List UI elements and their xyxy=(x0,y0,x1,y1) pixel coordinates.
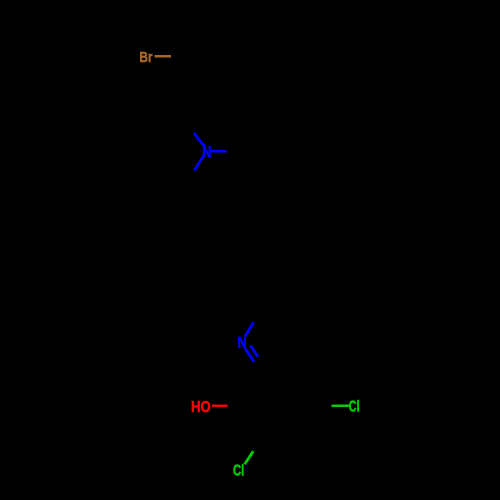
bond Br-C (Br colored half) xyxy=(155,55,172,57)
bond N2-CH2 upper-right single (N colored half) xyxy=(245,322,254,336)
svg-text:N: N xyxy=(202,145,211,162)
svg-text:HO: HO xyxy=(191,399,211,416)
bond N1-CH2 upper-left (N colored half) xyxy=(194,133,205,147)
svg-text:Cl: Cl xyxy=(233,462,244,479)
bond N1-CH2 lower-left (N colored half) xyxy=(194,154,204,170)
svg-text:Br: Br xyxy=(140,49,153,66)
bond N2=CH double main line (N colored half) xyxy=(245,348,254,362)
bond C-Cl bottom (Cl colored half) xyxy=(245,451,254,464)
bond O-C aromatic right (O colored half) xyxy=(212,404,228,407)
bond N1-CH3 right (N colored half) xyxy=(211,150,227,153)
svg-text:Cl: Cl xyxy=(349,399,360,416)
bond C-Cl right (Cl colored half) xyxy=(332,405,350,408)
svg-text:N: N xyxy=(238,335,247,352)
bond N2=CH double inner line (N colored half) xyxy=(251,345,259,356)
